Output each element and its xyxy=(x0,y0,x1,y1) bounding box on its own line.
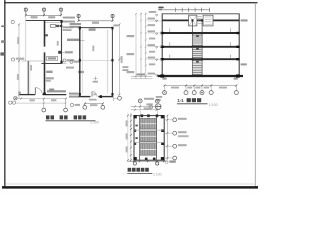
plan A level symbol right of mid wall xyxy=(63,59,66,62)
section roof railing posts xyxy=(176,8,210,12)
stair plan flight 3 hatched xyxy=(140,144,156,156)
stair plan inner wall left xyxy=(139,116,141,161)
section level leader lines xyxy=(148,21,162,59)
plan B inner cross mark 2 xyxy=(93,81,98,83)
plan A left dim ticks xyxy=(18,24,20,96)
stair plan right texts xyxy=(178,118,187,120)
plan B door hatch xyxy=(93,94,96,96)
stair plan axis stems to box xyxy=(140,103,157,116)
plan A level text left xyxy=(16,58,24,60)
plan A mid wall xyxy=(42,63,62,65)
stair plan right axis bubble 4 xyxy=(173,156,177,160)
plan A right wall xyxy=(61,21,63,64)
section left dim line outer xyxy=(135,13,137,79)
section shaft slab blobs xyxy=(192,19,194,21)
stair plan outline box xyxy=(134,116,164,161)
plan B top dimension line xyxy=(79,20,113,22)
stair plan top annotation xyxy=(144,98,154,100)
plan A top dim label 3300 right xyxy=(48,16,55,18)
stair plan corner columns xyxy=(133,115,136,118)
plans title underline xyxy=(46,120,96,122)
stair plan title characters xyxy=(128,168,149,172)
stair plan bottom right text xyxy=(169,160,175,162)
section callout circle bottom left xyxy=(155,104,161,110)
stair plan right axis bubble 1 xyxy=(173,118,177,122)
border left line xyxy=(4,0,6,188)
plan A lower-left top leader xyxy=(22,60,45,62)
section stair ladder flight 2 xyxy=(192,48,202,58)
stair plan mid-right columns xyxy=(161,129,164,132)
border bottom thin line xyxy=(6,183,256,185)
plan A axis bubble 1 top xyxy=(24,8,27,11)
section axis bubble 6 xyxy=(234,91,238,95)
section level triangles left xyxy=(155,15,157,77)
border bottom thick line xyxy=(2,186,258,189)
plan B inner line xyxy=(107,30,109,94)
section left dim line inner xyxy=(145,13,147,80)
stair plan flight 2 hatched xyxy=(140,131,156,141)
plans title characters xyxy=(46,115,86,119)
section right wall xyxy=(238,14,240,76)
stair plan flight white breaks xyxy=(140,124,156,150)
stair plan right axis bubble 2 xyxy=(173,131,177,135)
stair plan bottom dim line xyxy=(128,160,168,162)
far right annotation text 3 xyxy=(127,71,135,73)
stair plan top edge wall blobs xyxy=(141,114,144,117)
plan B wall column blob xyxy=(100,95,102,98)
plan A furniture mark on right wall xyxy=(58,51,62,54)
svg-text:1:100: 1:100 xyxy=(90,121,99,125)
stair plan right axis bubble 3 xyxy=(173,144,177,148)
plan A left extension thin line xyxy=(25,15,27,61)
stair plan top dim label xyxy=(144,107,152,109)
plan A level crossed circle below xyxy=(14,97,17,100)
plan B bottom wall right run xyxy=(98,96,113,98)
plan B axis bubble 1 top xyxy=(77,14,80,17)
plan A bottom axis bubble 2 xyxy=(64,108,68,112)
section stair bulkhead right box xyxy=(203,15,213,26)
far right annotation text 2 xyxy=(127,53,135,55)
section floor slab level 2 xyxy=(162,58,240,60)
section level mark right mid xyxy=(241,63,247,65)
plan B bottom axis bubble right xyxy=(101,105,105,109)
section ground apron leaders left xyxy=(131,75,152,77)
plan A lower room text 2 xyxy=(46,71,52,73)
section axis stems bottom xyxy=(165,86,237,91)
section stair ladder flight 1 xyxy=(192,35,202,45)
stair plan top dim line 2 xyxy=(131,109,158,111)
plan A top dimension line xyxy=(26,14,61,16)
plan A bottom dim labels xyxy=(30,99,35,101)
plan B wall column blobs xyxy=(79,27,81,30)
stair plan left dim line outer xyxy=(127,113,129,162)
stair plan right dim line xyxy=(166,116,168,161)
plan A top dim ticks xyxy=(25,14,62,16)
plan B bottom axis bubble left xyxy=(83,105,87,109)
stair plan bottom edge wall blobs xyxy=(145,158,148,161)
svg-text:1:100: 1:100 xyxy=(209,103,218,107)
section roof railing line xyxy=(163,9,210,11)
plan B label 1800 xyxy=(89,28,96,30)
stair plan left strip marks xyxy=(135,125,137,127)
stair plan right leaders xyxy=(164,120,173,158)
plan A bottom axis stems xyxy=(44,99,66,109)
plan A door arc xyxy=(35,88,42,95)
section stair shaft wall right xyxy=(201,20,203,76)
plan B axis bubble 2 top xyxy=(111,14,114,17)
plan B right dim ticks xyxy=(118,24,120,96)
section left dim ticks xyxy=(135,13,147,77)
plan B top dim label xyxy=(92,22,99,24)
plan B right wall stub below xyxy=(112,97,114,101)
border left binding marks xyxy=(1,25,5,27)
stair plan axis bubble top 1 xyxy=(138,99,142,103)
plan B bottom dim ticks xyxy=(84,103,104,105)
stair plan inner wall right xyxy=(156,116,158,161)
plan A left vertical dim line xyxy=(18,25,20,99)
plan B mid divider line xyxy=(81,60,113,62)
plan A axis bubble left mid xyxy=(11,20,14,23)
plan B axis stems xyxy=(79,14,113,20)
plan A axis stems top xyxy=(26,8,61,15)
plan A door symbol dark xyxy=(56,25,60,27)
section axis bubble 5 xyxy=(209,91,213,95)
section roof slab xyxy=(162,19,240,21)
section column blobs left wall xyxy=(161,32,164,34)
plan A top wall xyxy=(26,20,62,22)
plan B left wall xyxy=(79,28,81,97)
plan A window symbol near top xyxy=(51,25,56,28)
plan B right dim top label xyxy=(114,24,119,26)
plan A central wall door jambs xyxy=(44,47,46,53)
plan B door arc xyxy=(92,92,97,97)
stair plan landing lines xyxy=(134,129,164,131)
section bottom dim line xyxy=(165,85,237,87)
plan B bottom dim label xyxy=(90,104,97,106)
plan A room text vertical xyxy=(57,41,59,46)
stair plan top dim ticks xyxy=(134,106,158,111)
plan B axis bubble right wall xyxy=(118,96,122,100)
level symbol left of plan B xyxy=(70,60,73,63)
section ground slab xyxy=(158,75,244,77)
plan A annotation rows right of wall xyxy=(63,17,75,19)
section floor slab level 4 xyxy=(162,32,240,34)
section axis bubble 4 dotted xyxy=(200,91,204,95)
section stair shaft wall left xyxy=(191,20,193,76)
plan A top wall inner line xyxy=(44,21,61,23)
plan B bottom axis stems xyxy=(85,104,103,106)
stair plan bottom axis bubble 2 xyxy=(156,162,159,165)
section stair bulkhead left box xyxy=(189,15,197,26)
plan A bottom dim ticks 1 xyxy=(14,98,67,100)
plan A text row below mid xyxy=(66,67,74,69)
section title underline xyxy=(177,103,208,105)
plan A top dim label 3300 left xyxy=(31,16,38,18)
plan A bottom annotation row xyxy=(47,90,66,92)
section annotation small rows x127 xyxy=(122,66,128,68)
plan B inner line left xyxy=(81,30,83,94)
stair plan bottom dim ticks xyxy=(133,160,165,162)
plan A level symbol left xyxy=(11,58,14,61)
plan A left dim label 8100 rotated xyxy=(17,37,19,44)
stair plan axis bubble top 2 xyxy=(155,99,159,103)
section parapet top line xyxy=(162,13,240,15)
section column blobs right wall xyxy=(236,32,239,34)
section floor slab level 3 xyxy=(162,46,240,48)
plan B inner cross mark 1 xyxy=(93,76,97,80)
plan A twin circles below xyxy=(9,101,12,104)
plan B inner text vertical xyxy=(92,46,94,52)
section foundation marks xyxy=(162,78,166,80)
plan B top dim ticks xyxy=(78,20,114,22)
plan A axis bubble 2 top xyxy=(42,8,45,11)
plan A door leaf xyxy=(34,88,36,95)
plan A lower room text vertical xyxy=(30,65,32,71)
plan A central thick wall lower xyxy=(44,53,46,95)
section level marks left xyxy=(148,11,157,75)
section stair ladder flight 3 xyxy=(192,61,202,75)
plan A central thick wall upper xyxy=(44,21,46,47)
plan A mid box xyxy=(47,57,58,61)
section bottom dim ticks xyxy=(164,85,238,87)
plan A bottom dim line 1 xyxy=(15,98,66,100)
stair plan right dim ticks xyxy=(166,115,168,159)
stair plan bottom extra circle xyxy=(165,161,168,164)
plan B bottom wall left run xyxy=(77,96,90,98)
stair plan title underline xyxy=(127,173,152,175)
plan B top wall xyxy=(79,27,113,29)
section left wall xyxy=(161,14,163,76)
plan A lower room text 3 xyxy=(46,77,54,79)
plan B right vertical dim line xyxy=(118,24,120,96)
plan A bottom wall left run xyxy=(20,94,36,96)
section level mark right top xyxy=(241,19,248,21)
section axis bubble 1 crossed xyxy=(163,91,167,95)
plan B door leaf xyxy=(91,92,93,97)
plan A axis bubble 3 top xyxy=(59,8,62,11)
plan B bottom dim line xyxy=(85,103,103,105)
border top line xyxy=(4,2,258,4)
border right line xyxy=(254,3,256,188)
plan B right dim label 8100 rotated xyxy=(121,56,123,63)
plan B level circle left xyxy=(70,103,73,106)
plan A bottom axis bubble 1 xyxy=(42,108,46,112)
stair plan top dim line 1 xyxy=(131,106,158,108)
plan A door label M1 xyxy=(49,89,54,91)
plan A lower-left wall xyxy=(27,61,29,95)
stair plan bottom axis bubble 1 xyxy=(133,162,136,165)
plan A bottom dim line 2 xyxy=(16,102,67,104)
plan B marks below wall xyxy=(89,99,97,101)
stair plan left rotated labels xyxy=(126,120,128,126)
section window jamb ticks xyxy=(170,28,231,58)
svg-text:1:100: 1:100 xyxy=(153,173,162,177)
stair plan left dim ticks xyxy=(127,115,132,162)
section top-left label xyxy=(158,7,163,9)
stair plan flight 1 hatched xyxy=(140,118,156,129)
section left dim line middle xyxy=(140,13,142,80)
stair plan mid-left columns xyxy=(134,129,137,132)
stair plan left dim line inner xyxy=(130,113,132,162)
plan B bottom-left annotation rows xyxy=(69,93,79,95)
plan B left annotation row 1 xyxy=(70,23,81,25)
svg-text:1-1: 1-1 xyxy=(177,98,184,103)
far right annotation text 1 xyxy=(127,35,135,37)
plan B right wall xyxy=(111,28,113,97)
plan B left annotation row 2 xyxy=(70,26,81,28)
section bottom dim labels xyxy=(171,87,179,89)
plan B left annotation row 3 with leader xyxy=(67,39,80,41)
section axis bubble 3 xyxy=(192,91,196,95)
plan A bottom wall right run xyxy=(43,94,67,96)
section shaft top rungs xyxy=(198,17,202,24)
section axis bubble 2 xyxy=(184,91,188,95)
